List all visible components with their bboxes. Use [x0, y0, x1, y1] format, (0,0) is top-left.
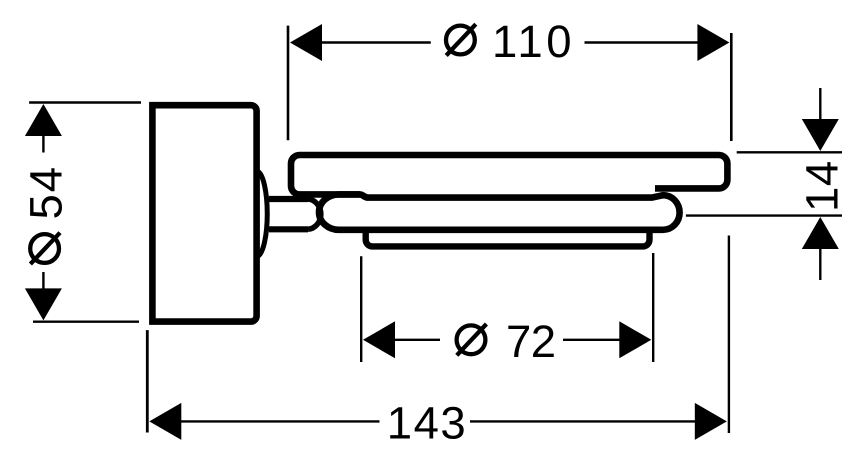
extension line top of dim 14	[737, 151, 842, 153]
svg-text:110: 110	[492, 16, 575, 67]
extension line right shared by dim 110 (upper segment)	[730, 33, 733, 141]
dimension line 14 lower segment	[819, 248, 821, 280]
svg-text:54: 54	[20, 165, 71, 220]
dish base (bottom tray, Ø72 foot)	[366, 227, 650, 246]
svg-text:72: 72	[506, 316, 556, 367]
extension line right of dim 72	[652, 253, 654, 362]
extension line right shared by dim 143 (lower segment)	[728, 236, 730, 434]
extension line bottom of dim 54	[33, 321, 139, 323]
extension line top of dim 54	[29, 101, 141, 103]
dimension line 110 right segment	[585, 41, 699, 43]
dish rim (top plate, glass dish)	[291, 155, 727, 194]
dimension line 143 right segment	[470, 420, 696, 422]
arrowhead 110 left	[290, 24, 322, 61]
arrowhead 143 right	[695, 403, 727, 440]
extension line left of dim 143	[146, 330, 149, 432]
arrowhead 54 top	[25, 104, 62, 136]
arrowhead 14 top (pointing down)	[802, 119, 839, 151]
dimension line 72 left segment	[394, 339, 440, 341]
holder ring (middle stadium bar)	[319, 194, 680, 229]
dimension line 54 lower segment	[42, 272, 44, 289]
stem bottom line	[269, 226, 308, 232]
dimension line 14 upper segment	[819, 88, 821, 120]
diameter symbol of label 110	[446, 24, 476, 55]
arrowhead 143 left	[149, 403, 181, 440]
diameter symbol of label 72	[457, 324, 487, 355]
stem end cap (rounded end of arm)	[308, 199, 321, 229]
diameter symbol of label 54	[30, 233, 60, 264]
arrowhead 54 bottom	[25, 288, 62, 320]
extension line left of dim 72	[360, 256, 362, 362]
svg-text:14: 14	[796, 160, 847, 212]
dimension line 54 upper segment	[42, 134, 44, 153]
dimension line 110 left segment	[321, 41, 431, 43]
stem top line	[269, 196, 308, 202]
svg-text:143: 143	[387, 397, 467, 448]
dimension line 72 right segment	[563, 339, 620, 341]
arrowhead 14 bottom (pointing up)	[802, 217, 839, 249]
dimension line 143 left segment	[181, 420, 380, 422]
extension line bottom of dim 14	[686, 214, 842, 216]
arrowhead 72 right	[619, 321, 651, 358]
arrowhead 110 right	[697, 24, 729, 61]
flange (escutcheon ellipse at plate right edge)	[258, 171, 268, 256]
extension line left of dim 110	[287, 26, 290, 141]
arrowhead 72 left	[363, 321, 395, 358]
wall plate (mounting plate, side view)	[152, 105, 256, 321]
